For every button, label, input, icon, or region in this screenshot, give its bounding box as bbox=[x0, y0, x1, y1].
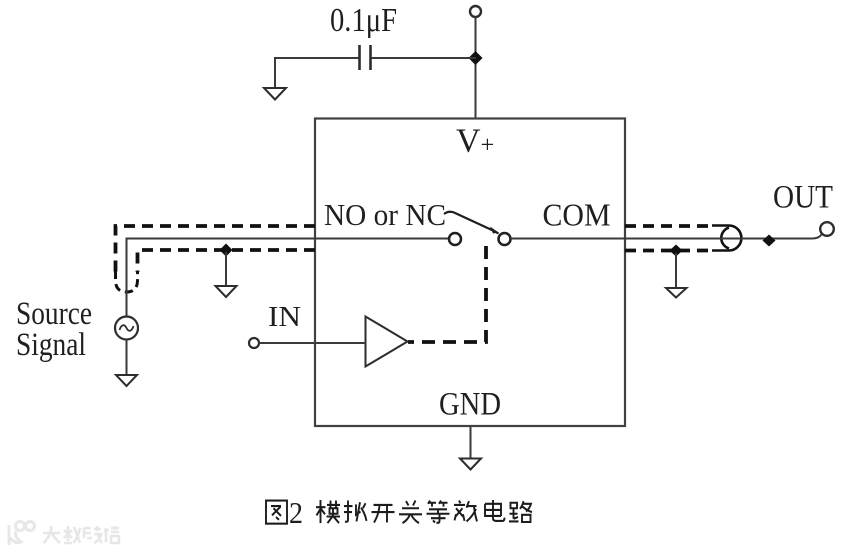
terminal IN bbox=[249, 338, 259, 348]
wire V+ vertical bbox=[475, 17, 477, 118]
wire IN bbox=[260, 342, 366, 344]
cable end cap bbox=[712, 226, 741, 251]
svg-text:0.1μF: 0.1μF bbox=[330, 2, 397, 39]
svg-text:NO or NC: NO or NC bbox=[324, 197, 446, 232]
watermark text bbox=[43, 526, 119, 543]
svg-text:GND: GND bbox=[439, 387, 501, 423]
terminal OUT bbox=[820, 222, 834, 236]
svg-text:Signal: Signal bbox=[16, 327, 86, 363]
wire GND bbox=[470, 426, 472, 459]
wire right junction to ground bbox=[675, 253, 677, 288]
caption: xiao4 bbox=[454, 501, 477, 522]
wire COM inside box bbox=[511, 238, 626, 240]
svg-text:COM: COM bbox=[543, 198, 611, 233]
dashed outer (right) bbox=[625, 224, 714, 228]
wire source to box bbox=[127, 239, 316, 318]
dashed path U loop around source lead bbox=[116, 271, 138, 292]
caption: ni3 bbox=[344, 501, 367, 522]
capacitor C1 plates bbox=[360, 45, 371, 70]
capacitor C1 wire left bbox=[275, 57, 360, 59]
junction dot at capacitor bbox=[469, 51, 483, 65]
wire COM to OUT bbox=[625, 235, 822, 239]
ground (source) bbox=[116, 375, 137, 386]
switch contact COM bbox=[499, 233, 511, 245]
switch blade bbox=[444, 212, 499, 234]
watermark logo bbox=[9, 522, 35, 546]
IC box bbox=[315, 119, 625, 427]
dashed signal path inner (left) bbox=[138, 250, 316, 272]
wire junction to ground (left) bbox=[225, 252, 227, 286]
caption: deng3 bbox=[427, 501, 450, 523]
caption: guan1 bbox=[399, 501, 422, 524]
caption: kai1 bbox=[372, 505, 395, 523]
wire capacitor to ground bbox=[274, 57, 276, 88]
svg-text:2: 2 bbox=[289, 497, 303, 530]
wire NO/NC inside box bbox=[315, 238, 450, 240]
ground (capacitor) bbox=[264, 88, 286, 100]
caption: dian4 bbox=[485, 500, 505, 521]
dashed inner (right) bbox=[625, 249, 714, 253]
ground (GND) bbox=[460, 459, 481, 470]
caption figure 2 : tu2 bbox=[266, 501, 287, 524]
op-amp buffer U1 bbox=[366, 317, 408, 367]
junction dot (left ground tap) bbox=[220, 244, 233, 257]
ground (right) bbox=[666, 288, 687, 298]
svg-text:V+: V+ bbox=[456, 123, 494, 160]
caption: mo2 bbox=[316, 500, 340, 523]
terminal V+ supply bbox=[470, 6, 481, 17]
junction dot right ground tap bbox=[670, 245, 683, 257]
caption: lu4 bbox=[509, 501, 532, 522]
dashed control line from switch to buffer bbox=[408, 246, 486, 342]
wire source to ground bbox=[126, 340, 128, 376]
switch contact NO/NC bbox=[449, 233, 461, 245]
ground (left) bbox=[216, 286, 237, 297]
source V1 sine generator bbox=[115, 317, 138, 340]
junction dot OUT bbox=[763, 235, 776, 247]
svg-text:IN: IN bbox=[268, 302, 301, 333]
dashed signal path outer (left) bbox=[116, 226, 316, 272]
svg-text:OUT: OUT bbox=[773, 180, 833, 216]
capacitor C1 wire right bbox=[371, 57, 477, 59]
